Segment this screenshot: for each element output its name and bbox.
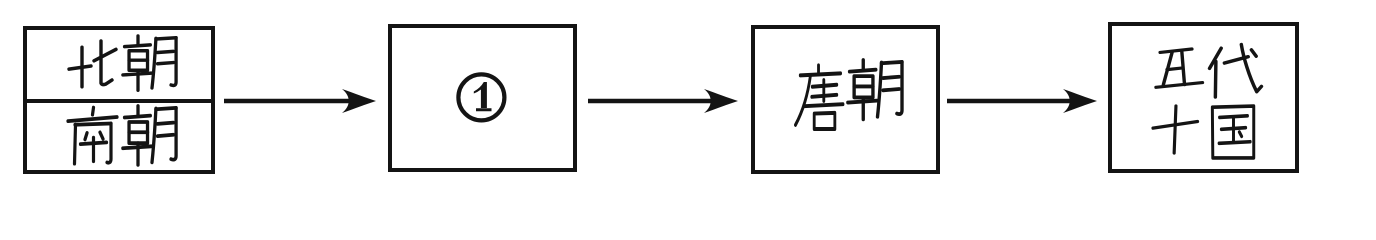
box 1 divider [25, 99, 213, 103]
box 4: Five Dynasties and Ten Kingdoms [1110, 24, 1297, 171]
text Wu Dai (Five Dynasties) [1156, 49, 1202, 87]
arrow 2 [588, 99, 714, 104]
text Shi Guo (Ten Kingdoms) [1153, 106, 1198, 153]
box 3: Tang dynasty [753, 27, 938, 172]
text Tang Chao (Tang Dynasty) [795, 65, 843, 129]
arrow 1 [224, 99, 352, 104]
box 1: Northern/Southern dynasties [25, 28, 213, 172]
text Bei Chao (Northern Dynasties) [69, 41, 116, 87]
circled 1 symbol [458, 74, 504, 120]
text Nan Chao (Southern Dynasties) [68, 108, 117, 164]
arrow 3 [947, 99, 1073, 104]
box 2: unknown dynasty (1) [390, 26, 575, 170]
